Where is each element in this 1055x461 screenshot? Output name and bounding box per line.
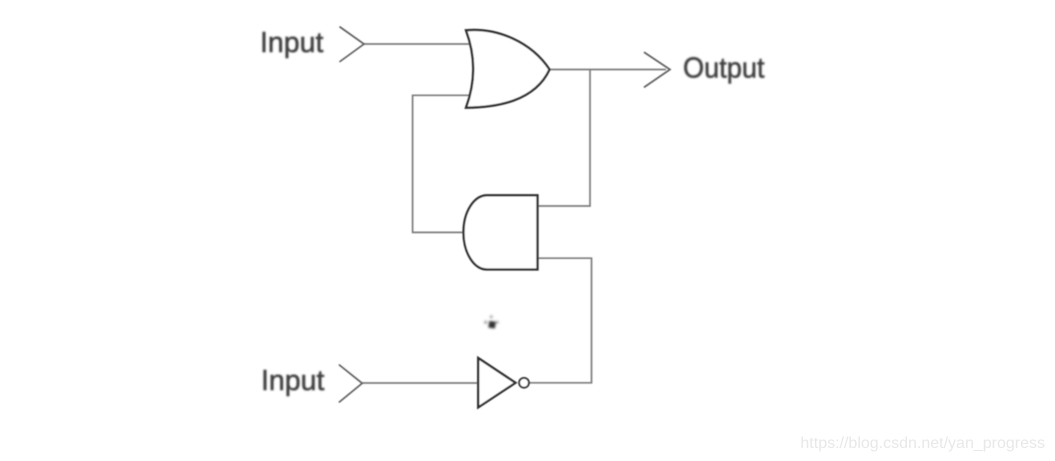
svg-text:Input: Input bbox=[261, 365, 324, 397]
svg-text:Input: Input bbox=[260, 27, 323, 59]
svg-text:https://blog.csdn.net/yan_prog: https://blog.csdn.net/yan_progress bbox=[800, 435, 1045, 452]
svg-text:Output: Output bbox=[683, 53, 765, 85]
